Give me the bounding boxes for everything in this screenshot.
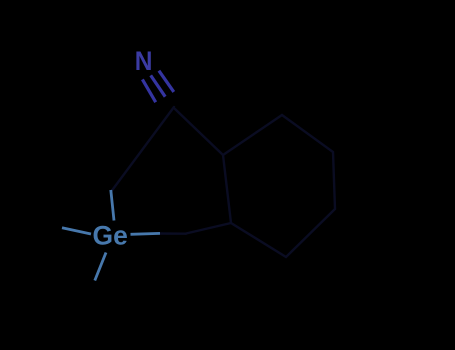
wire ring E to C — [186, 223, 231, 234]
triple bond C#N — [142, 71, 173, 103]
svg-text:N: N — [135, 46, 153, 76]
wire A to ring vertex D — [175, 109, 223, 155]
bond Ge left methyl — [62, 228, 91, 234]
wire C to Ge right — [157, 232, 187, 235]
bond Ge up — [111, 190, 114, 221]
wire A to B (down to Ge) — [111, 107, 174, 192]
svg-text:Ge: Ge — [93, 220, 128, 250]
Ge bright bonds — [62, 190, 160, 281]
carbon skeleton faint bonds — [111, 107, 335, 257]
bond Ge down-left methyl — [95, 253, 106, 281]
bond Ge right — [131, 232, 161, 236]
cyclohexane ring — [223, 115, 335, 257]
